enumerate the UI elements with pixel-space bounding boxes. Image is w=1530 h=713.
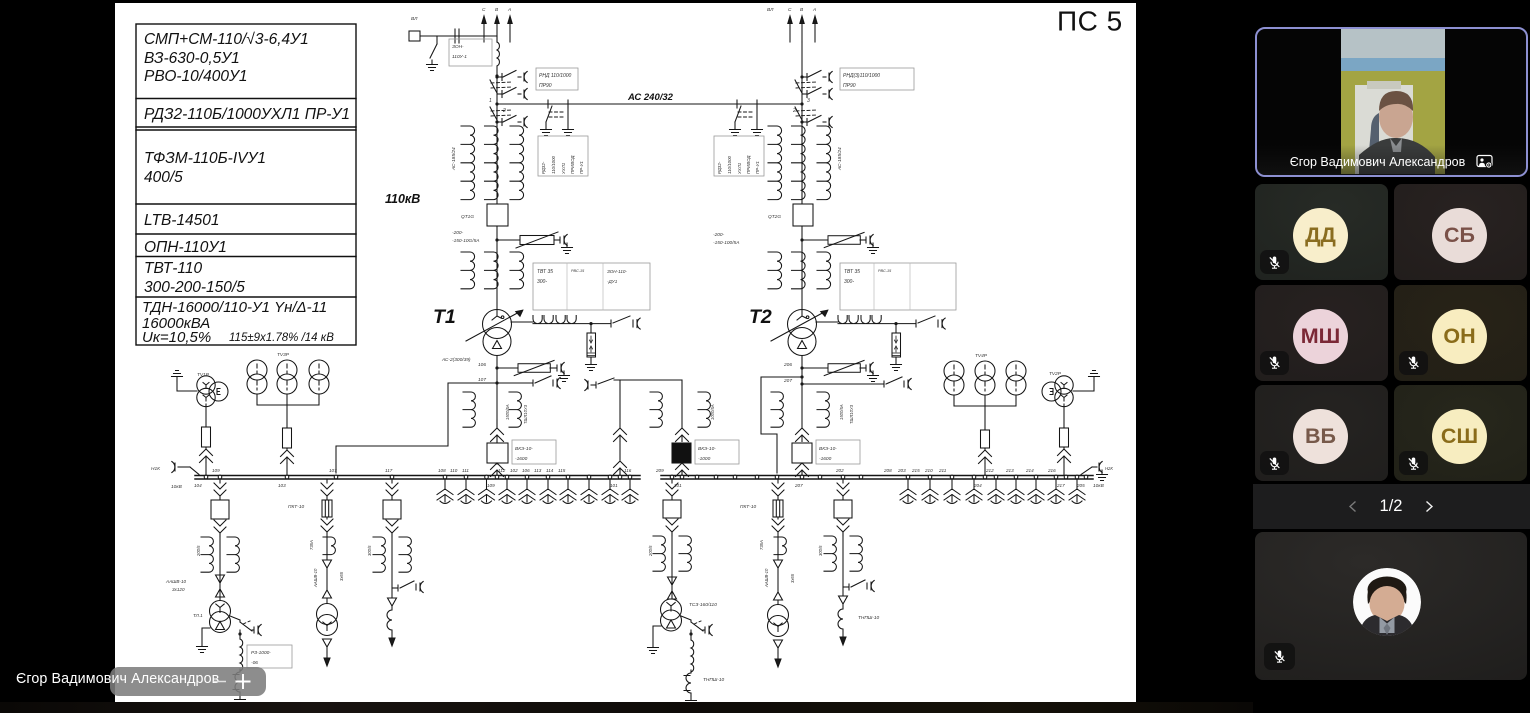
svg-text:1500/5А: 1500/5А bbox=[505, 404, 510, 420]
svg-text:ОПН-110У1: ОПН-110У1 bbox=[144, 239, 227, 256]
svg-text:-1600: -1600 bbox=[819, 456, 832, 462]
svg-text:Т2: Т2 bbox=[749, 306, 772, 328]
svg-text:ТВТ 35: ТВТ 35 bbox=[844, 269, 860, 275]
svg-text:РНД(3)110/1000: РНД(3)110/1000 bbox=[843, 73, 880, 79]
svg-text:ТV4Р: ТV4Р bbox=[975, 353, 988, 359]
svg-text:АС 240/32: АС 240/32 bbox=[627, 92, 674, 103]
svg-text:ТШЛ10У3: ТШЛ10У3 bbox=[849, 404, 854, 424]
svg-text:112: 112 bbox=[498, 468, 506, 473]
svg-text:2: 2 bbox=[502, 108, 506, 114]
svg-text:РВС-15: РВС-15 bbox=[878, 269, 892, 273]
svg-text:106: 106 bbox=[478, 362, 486, 368]
svg-text:214: 214 bbox=[1025, 468, 1034, 473]
svg-text:110У-1: 110У-1 bbox=[452, 54, 467, 60]
svg-text:-150-10G/5А: -150-10G/5А bbox=[452, 238, 479, 244]
svg-text:Н2К: Н2К bbox=[1105, 466, 1113, 471]
svg-text:400/5: 400/5 bbox=[144, 169, 183, 186]
svg-text:ТВТ-110: ТВТ-110 bbox=[144, 260, 202, 277]
svg-text:3х120: 3х120 bbox=[172, 587, 185, 592]
svg-text:1000/5А: 1000/5А bbox=[710, 404, 715, 420]
svg-text:210: 210 bbox=[924, 468, 933, 473]
svg-text:ПРИВОД: ПРИВОД bbox=[746, 156, 751, 174]
svg-text:-1000: -1000 bbox=[698, 456, 711, 462]
svg-text:ТДН-16000/110-У1 Yн/Δ-11: ТДН-16000/110-У1 Yн/Δ-11 bbox=[142, 299, 327, 316]
svg-text:3: 3 bbox=[807, 98, 810, 104]
svg-text:РЗ-1000-: РЗ-1000- bbox=[251, 650, 271, 656]
svg-text:ВКЭ-10-: ВКЭ-10- bbox=[819, 446, 837, 452]
svg-text:735А: 735А bbox=[759, 540, 764, 550]
svg-text:217: 217 bbox=[1056, 483, 1065, 488]
svg-text:ПРИВОД: ПРИВОД bbox=[570, 156, 575, 174]
svg-text:РНД 110/1000: РНД 110/1000 bbox=[539, 73, 572, 79]
svg-text:207: 207 bbox=[794, 483, 803, 488]
svg-text:-1600: -1600 bbox=[515, 456, 528, 462]
svg-text:107: 107 bbox=[478, 377, 486, 383]
svg-text:ПР90: ПР90 bbox=[539, 83, 552, 89]
svg-text:211: 211 bbox=[938, 468, 947, 473]
svg-text:Uк=10,5%: Uк=10,5% bbox=[142, 329, 211, 346]
svg-text:ВЗ-630-0,5У1: ВЗ-630-0,5У1 bbox=[144, 50, 240, 67]
svg-text:113: 113 bbox=[534, 468, 542, 473]
svg-text:А: А bbox=[812, 7, 816, 13]
svg-text:202: 202 bbox=[835, 468, 844, 473]
svg-text:УХЛ1: УХЛ1 bbox=[737, 162, 742, 174]
svg-text:ВЛ: ВЛ bbox=[411, 16, 418, 22]
svg-text:ТV3Р: ТV3Р bbox=[277, 352, 290, 358]
svg-text:206: 206 bbox=[783, 362, 792, 368]
svg-text:300-200-150/5: 300-200-150/5 bbox=[144, 279, 245, 296]
svg-text:РДЗ2-: РДЗ2- bbox=[717, 161, 722, 174]
svg-text:205: 205 bbox=[1076, 483, 1085, 488]
svg-text:-06: -06 bbox=[251, 660, 258, 666]
svg-text:ТШЛ10У3: ТШЛ10У3 bbox=[523, 404, 528, 424]
svg-text:-ДУ1: -ДУ1 bbox=[607, 279, 618, 284]
svg-text:ЗОН-110-: ЗОН-110- bbox=[607, 269, 627, 274]
svg-text:3х65: 3х65 bbox=[790, 573, 795, 583]
svg-text:АС-185/24: АС-185/24 bbox=[837, 147, 843, 171]
svg-text:ЗОН-: ЗОН- bbox=[452, 44, 464, 50]
svg-text:213: 213 bbox=[1005, 468, 1014, 473]
svg-text:ПС 5: ПС 5 bbox=[1057, 6, 1123, 37]
svg-text:200/5: 200/5 bbox=[196, 545, 201, 557]
svg-text:216: 216 bbox=[1047, 468, 1056, 473]
svg-text:ААШВ-10: ААШВ-10 bbox=[764, 568, 769, 588]
svg-text:104: 104 bbox=[194, 483, 202, 488]
svg-text:ПР-У1: ПР-У1 bbox=[755, 161, 760, 174]
svg-text:ТV1Р: ТV1Р bbox=[197, 372, 210, 378]
svg-text:201: 201 bbox=[673, 483, 682, 488]
svg-text:ТНПШ-10: ТНПШ-10 bbox=[858, 615, 880, 621]
svg-text:115±9х1.78% /14 кВ: 115±9х1.78% /14 кВ bbox=[229, 332, 334, 344]
svg-text:-150-100/5А: -150-100/5А bbox=[713, 240, 739, 246]
svg-text:ААШВ-10: ААШВ-10 bbox=[165, 579, 187, 584]
svg-text:АС-185/24: АС-185/24 bbox=[451, 147, 457, 171]
svg-text:ААШВ-10: ААШВ-10 bbox=[313, 568, 318, 588]
svg-text:109: 109 bbox=[212, 468, 220, 473]
svg-text:300-: 300- bbox=[844, 279, 854, 285]
svg-text:В: В bbox=[800, 7, 804, 13]
svg-text:С: С bbox=[482, 7, 486, 13]
svg-text:103: 103 bbox=[278, 483, 286, 488]
svg-text:110кВ: 110кВ bbox=[385, 192, 420, 206]
svg-text:-200-: -200- bbox=[713, 232, 725, 238]
svg-text:116: 116 bbox=[624, 468, 632, 473]
svg-text:117: 117 bbox=[385, 468, 393, 473]
svg-text:300-: 300- bbox=[537, 279, 547, 285]
svg-text:-200-: -200- bbox=[452, 230, 464, 236]
svg-text:ПКТ-10: ПКТ-10 bbox=[288, 504, 304, 510]
svg-text:102: 102 bbox=[510, 468, 518, 473]
svg-text:УХЛ1: УХЛ1 bbox=[561, 162, 566, 174]
svg-text:ВКЭ-10-: ВКЭ-10- bbox=[698, 446, 716, 452]
svg-text:300/5: 300/5 bbox=[367, 545, 372, 556]
svg-text:РВО-10/400У1: РВО-10/400У1 bbox=[144, 68, 248, 85]
svg-text:РДЗ2-: РДЗ2- bbox=[541, 161, 546, 174]
svg-text:ПР90: ПР90 bbox=[843, 83, 856, 89]
svg-text:107: 107 bbox=[329, 468, 337, 473]
svg-text:106: 106 bbox=[522, 468, 530, 473]
svg-text:3х65: 3х65 bbox=[339, 571, 344, 581]
svg-text:ВЛ: ВЛ bbox=[767, 7, 774, 13]
svg-text:ПР-У1: ПР-У1 bbox=[579, 161, 584, 174]
svg-text:200/5: 200/5 bbox=[648, 545, 653, 557]
svg-text:ТСЗ-160/110: ТСЗ-160/110 bbox=[689, 602, 717, 608]
svg-text:Т1: Т1 bbox=[433, 306, 456, 328]
svg-text:2: 2 bbox=[792, 108, 796, 114]
svg-text:Н1К: Н1К bbox=[151, 466, 161, 472]
svg-text:ТЛ.1: ТЛ.1 bbox=[193, 613, 203, 618]
svg-text:204: 204 bbox=[973, 483, 982, 488]
svg-text:QT1G: QT1G bbox=[461, 214, 474, 220]
svg-text:300/5: 300/5 bbox=[818, 545, 823, 556]
svg-text:114: 114 bbox=[546, 468, 554, 473]
svg-text:208: 208 bbox=[883, 468, 892, 473]
svg-text:ПКТ-10: ПКТ-10 bbox=[740, 504, 756, 510]
svg-text:209: 209 bbox=[655, 468, 664, 473]
svg-text:В: В bbox=[495, 7, 499, 13]
svg-text:РВС-15: РВС-15 bbox=[571, 269, 585, 273]
svg-text:LTB-14501: LTB-14501 bbox=[144, 212, 220, 229]
svg-text:А: А bbox=[507, 7, 511, 13]
svg-text:С: С bbox=[788, 7, 792, 13]
svg-text:10кВ: 10кВ bbox=[171, 484, 183, 490]
svg-text:ВКЭ-10-: ВКЭ-10- bbox=[515, 446, 533, 452]
svg-text:111: 111 bbox=[462, 468, 469, 473]
svg-text:СМП+СМ-110/√3-6,4У1: СМП+СМ-110/√3-6,4У1 bbox=[144, 31, 309, 48]
svg-text:1500/5А: 1500/5А bbox=[839, 404, 844, 420]
svg-text:110/1000: 110/1000 bbox=[551, 155, 556, 174]
svg-text:ТФЗМ-110Б-IVУ1: ТФЗМ-110Б-IVУ1 bbox=[144, 150, 266, 167]
svg-text:203: 203 bbox=[897, 468, 906, 473]
svg-text:ТВТ 35: ТВТ 35 bbox=[537, 269, 553, 275]
svg-text:109: 109 bbox=[487, 483, 495, 488]
svg-text:ТV2Р: ТV2Р bbox=[1049, 371, 1062, 377]
svg-text:735А: 735А bbox=[309, 540, 314, 550]
svg-text:10кВ: 10кВ bbox=[1093, 483, 1105, 489]
svg-text:QT2G: QT2G bbox=[768, 214, 781, 220]
svg-text:101: 101 bbox=[610, 483, 618, 488]
svg-text:110: 110 bbox=[450, 468, 458, 473]
svg-text:108: 108 bbox=[438, 468, 446, 473]
svg-text:АС-2(300/39): АС-2(300/39) bbox=[441, 357, 471, 363]
svg-text:115: 115 bbox=[558, 468, 566, 473]
svg-text:207: 207 bbox=[783, 378, 792, 384]
svg-text:215: 215 bbox=[911, 468, 920, 473]
svg-text:110/1000: 110/1000 bbox=[727, 155, 732, 174]
svg-text:1: 1 bbox=[489, 98, 492, 104]
svg-text:ТНПШ-10: ТНПШ-10 bbox=[703, 677, 725, 683]
svg-text:212: 212 bbox=[985, 468, 994, 473]
svg-text:РДЗ2-110Б/1000УХЛ1 ПР-У1: РДЗ2-110Б/1000УХЛ1 ПР-У1 bbox=[144, 106, 350, 123]
